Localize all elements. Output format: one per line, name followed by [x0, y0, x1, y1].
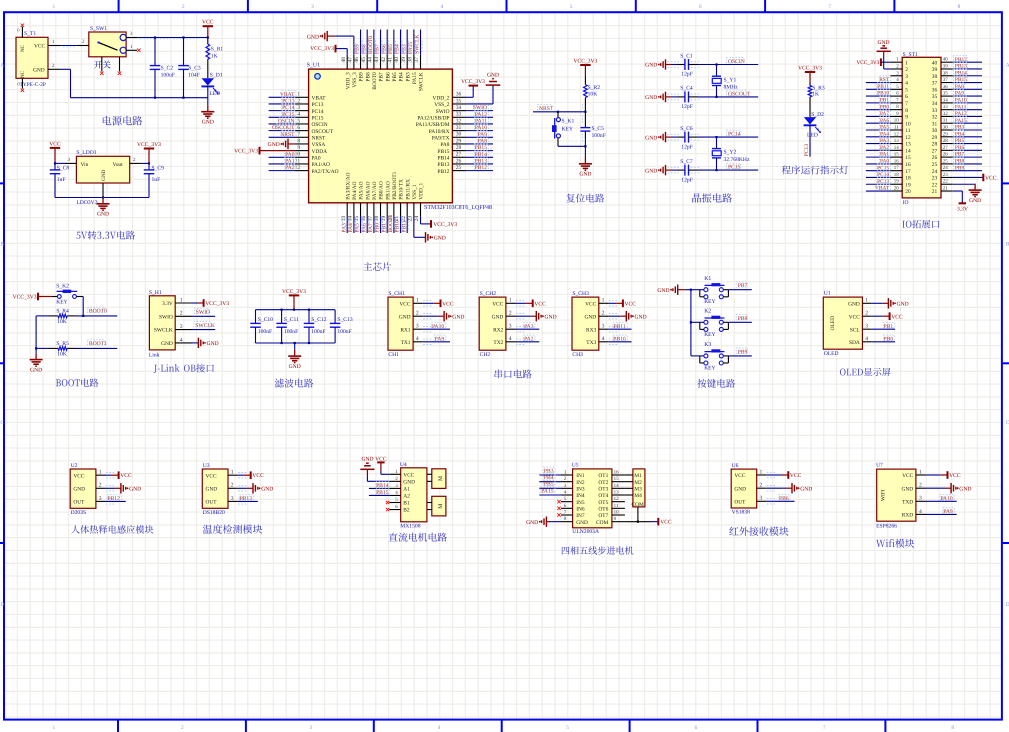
- ST1 pin 25: [932, 157, 982, 168]
- svg-text:1: 1: [760, 469, 763, 475]
- svg-text:21: 21: [943, 186, 949, 192]
- svg-text:U2: U2: [71, 463, 78, 469]
- svg-text:GND: GND: [261, 487, 273, 493]
- svg-text:28: 28: [456, 145, 462, 151]
- svg-text:GND: GND: [526, 520, 538, 526]
- svg-text:3: 3: [509, 324, 512, 330]
- wire net PB5: [539, 480, 561, 488]
- svg-text:7: 7: [828, 4, 831, 10]
- svg-text:PB5: PB5: [544, 482, 554, 488]
- svg-text:GND: GND: [897, 302, 909, 308]
- title 晶振电路: [692, 193, 732, 202]
- svg-text:16: 16: [894, 158, 900, 164]
- svg-text:33: 33: [932, 108, 938, 114]
- svg-text:VCC: VCC: [734, 473, 745, 479]
- svg-text:IN7: IN7: [576, 513, 585, 519]
- ST1 pin 19: [866, 178, 911, 189]
- svg-text:4: 4: [919, 509, 922, 515]
- svg-text:39: 39: [932, 67, 938, 73]
- svg-text:PB9: PB9: [355, 44, 361, 54]
- svg-text:PB1: PB1: [884, 324, 894, 330]
- svg-text:38: 38: [943, 70, 949, 76]
- svg-text:17: 17: [368, 216, 374, 222]
- U1 pin 22 PB11/RX (bottom): [401, 179, 412, 233]
- svg-text:U7: U7: [876, 463, 883, 469]
- svg-text:3: 3: [99, 496, 102, 502]
- svg-text:37: 37: [932, 81, 938, 87]
- svg-text:PB11/RX: PB11/RX: [405, 179, 411, 200]
- U1 pin 21 PB10/TX (bottom): [394, 179, 405, 233]
- svg-text:B1: B1: [403, 501, 410, 507]
- svg-text:1: 1: [53, 4, 56, 10]
- svg-text:45: 45: [361, 57, 367, 63]
- power VCC_3V3 at H1 pin1: [192, 299, 229, 307]
- wire net PA10: [423, 323, 450, 332]
- svg-text:S_R3: S_R3: [812, 85, 825, 91]
- ST1 pin 5: [866, 83, 908, 94]
- svg-text:13: 13: [614, 490, 620, 496]
- U1 pin 36 VDD_2: [432, 92, 465, 102]
- svg-text:A: A: [0, 63, 4, 69]
- svg-text:GND: GND: [434, 236, 446, 242]
- title 5V转3.3V电路: [76, 231, 135, 240]
- ST1 pin 34: [932, 96, 982, 107]
- svg-text:8: 8: [297, 138, 300, 144]
- capacitor S_C9 1uF: [144, 163, 164, 197]
- U1 pin 13 PA3/RX/AO (bottom): [341, 172, 352, 233]
- ST1 pin 39: [932, 62, 982, 73]
- svg-text:KEY: KEY: [704, 332, 715, 338]
- svg-text:PA5: PA5: [355, 223, 361, 233]
- svg-text:7: 7: [905, 101, 908, 107]
- svg-text:OLED: OLED: [830, 316, 836, 330]
- svg-text:S_C2: S_C2: [161, 65, 174, 71]
- svg-text:2: 2: [297, 98, 300, 104]
- svg-text:2: 2: [180, 311, 183, 317]
- serial port S_CH3: [572, 291, 608, 358]
- wire net PA10 (U7): [926, 495, 957, 502]
- svg-text:Vin: Vin: [81, 162, 89, 168]
- svg-text:GND: GND: [399, 314, 411, 320]
- ground GND at ST1 pin2: [877, 40, 891, 69]
- svg-text:41: 41: [388, 57, 394, 63]
- ground GND (U4): [360, 456, 389, 481]
- svg-text:GND: GND: [30, 367, 42, 373]
- no-connect marks U5 pins 5-7: [557, 500, 560, 503]
- svg-text:PA0: PA0: [880, 159, 889, 165]
- ground GND (reset): [579, 146, 592, 177]
- svg-text:31: 31: [943, 118, 949, 124]
- svg-text:20: 20: [894, 186, 900, 192]
- OLED pin 2 VCC: [849, 311, 872, 321]
- svg-text:35: 35: [932, 94, 938, 100]
- resistor S_R5 10K: [36, 340, 117, 358]
- U1 pin 14 PA4/AO (bottom): [348, 181, 359, 233]
- svg-text:VCC: VCC: [120, 473, 132, 479]
- svg-text:TX1: TX1: [401, 340, 411, 346]
- svg-text:VCC_3V3: VCC_3V3: [310, 46, 334, 52]
- svg-text:PB3: PB3: [544, 468, 554, 474]
- svg-text:PA3/RX/AO: PA3/RX/AO: [345, 172, 351, 199]
- svg-text:11: 11: [894, 125, 899, 131]
- svg-text:1: 1: [919, 469, 922, 475]
- svg-text:PA10: PA10: [432, 324, 444, 330]
- capacitor S_C11 100nF: [276, 309, 299, 345]
- svg-text:29: 29: [932, 135, 938, 141]
- sensor U6 VS1838: [731, 463, 766, 516]
- U1 pin 7 NRST: [269, 131, 326, 142]
- svg-text:31: 31: [932, 121, 938, 127]
- svg-text:S_SW1: S_SW1: [90, 26, 107, 32]
- svg-text:NRST: NRST: [312, 135, 326, 141]
- svg-text:IN4: IN4: [576, 493, 585, 499]
- svg-text:D203S: D203S: [71, 510, 87, 516]
- svg-text:44: 44: [368, 57, 374, 63]
- svg-text:3: 3: [311, 4, 314, 10]
- svg-text:7: 7: [297, 132, 300, 138]
- svg-text:ESP8266: ESP8266: [876, 524, 897, 530]
- ST1 pin 36: [932, 83, 982, 94]
- svg-text:1: 1: [905, 60, 908, 66]
- svg-text:PB6: PB6: [381, 44, 387, 54]
- push button K2: [691, 309, 752, 338]
- svg-text:18: 18: [905, 176, 911, 182]
- ground GND (U7): [926, 483, 971, 493]
- svg-text:PA7/AO: PA7/AO: [372, 181, 378, 199]
- ground GND: [238, 483, 274, 493]
- svg-text:VCC_3V3: VCC_3V3: [461, 79, 485, 85]
- svg-text:PB7: PB7: [738, 283, 748, 289]
- driver U5 ULN2003A: [561, 462, 625, 534]
- svg-text:1: 1: [53, 725, 56, 731]
- svg-text:OT7: OT7: [598, 513, 608, 519]
- U1 pin 29 PA8: [440, 137, 493, 148]
- svg-text:31: 31: [456, 125, 462, 131]
- svg-text:SWCLK: SWCLK: [419, 72, 425, 91]
- wire SWCLK: [192, 322, 215, 330]
- wire net PB0: [872, 335, 895, 342]
- capacitor S_C12 100nF: [304, 309, 327, 345]
- svg-text:1: 1: [297, 92, 300, 98]
- connector S_H1 J-Link: [149, 290, 175, 358]
- ST1 pin 2: [891, 63, 909, 73]
- svg-text:PC14: PC14: [312, 109, 324, 115]
- ground GND: [516, 311, 557, 321]
- svg-text:PA9: PA9: [478, 132, 488, 138]
- power VCC: [202, 20, 214, 38]
- svg-text:OT1: OT1: [598, 473, 608, 479]
- svg-text:12pF: 12pF: [681, 104, 693, 110]
- svg-text:104F: 104F: [188, 72, 200, 78]
- svg-text:WIFI: WIFI: [880, 489, 886, 501]
- power VCC at OLED pin2: [872, 312, 903, 320]
- power VCC: [766, 471, 801, 479]
- ST1 pin 6: [866, 89, 908, 100]
- svg-text:13: 13: [905, 142, 911, 148]
- wire filter top rail: [256, 309, 336, 311]
- svg-text:M3: M3: [634, 486, 642, 492]
- svg-text:VCC: VCC: [625, 301, 637, 307]
- svg-text:U3: U3: [203, 463, 210, 469]
- svg-text:PB10: PB10: [613, 336, 626, 342]
- U1 pin 42 PB6 (top): [381, 30, 392, 82]
- title 串口电路: [495, 370, 532, 379]
- ST1 pin 22: [932, 179, 953, 189]
- svg-text:D: D: [0, 602, 4, 608]
- svg-text:TX2: TX2: [493, 340, 503, 346]
- power VCC (U7): [926, 471, 961, 479]
- svg-text:GND: GND: [268, 142, 280, 148]
- svg-text:6: 6: [905, 94, 908, 100]
- serial port S_CH1: [388, 291, 423, 358]
- svg-text:35: 35: [943, 91, 949, 97]
- svg-text:PB14: PB14: [376, 483, 389, 489]
- svg-text:PB0: PB0: [880, 104, 890, 110]
- svg-text:16: 16: [361, 216, 367, 222]
- title 温度检测模块: [203, 524, 262, 533]
- wire net PA15: [539, 487, 561, 495]
- svg-text:S_C7: S_C7: [680, 159, 693, 165]
- svg-text:GND: GND: [800, 486, 812, 492]
- svg-text:BOOT0: BOOT0: [372, 72, 378, 90]
- svg-text:OUT: OUT: [73, 500, 85, 506]
- svg-text:14: 14: [905, 148, 911, 154]
- svg-text:PA7: PA7: [368, 223, 374, 233]
- svg-text:PA6: PA6: [361, 223, 367, 233]
- power VCC_3V3 (LDO out): [137, 142, 161, 164]
- svg-text:PB11: PB11: [613, 324, 625, 330]
- svg-text:VDD_3: VDD_3: [345, 72, 351, 89]
- svg-text:42: 42: [381, 57, 387, 63]
- svg-text:GND: GND: [101, 169, 107, 180]
- svg-text:GND: GND: [129, 487, 141, 493]
- svg-text:NRST: NRST: [280, 132, 295, 138]
- svg-text:2: 2: [181, 725, 184, 731]
- LED S_D2: [804, 112, 825, 138]
- svg-text:VSSA: VSSA: [312, 142, 326, 148]
- svg-text:GND: GND: [645, 63, 657, 69]
- svg-text:S_C12: S_C12: [311, 317, 326, 323]
- svg-text:TYPE-C-2P: TYPE-C-2P: [20, 82, 46, 88]
- sensor U2 D203S: [70, 463, 105, 516]
- resistor S_R2 10K: [584, 85, 601, 112]
- svg-text:22: 22: [943, 179, 949, 185]
- svg-text:VCC: VCC: [534, 301, 546, 307]
- svg-text:VBAT: VBAT: [312, 96, 327, 102]
- svg-text:IN5: IN5: [576, 500, 585, 506]
- svg-text:RX1: RX1: [400, 327, 410, 333]
- svg-text:12: 12: [614, 496, 620, 502]
- U1 pin 11 PA1/AO: [269, 157, 330, 168]
- U1 pin 32 PA11/USB/DM: [416, 117, 493, 128]
- svg-text:4: 4: [509, 336, 512, 342]
- svg-text:KEY: KEY: [56, 300, 67, 306]
- svg-text:1K: 1K: [812, 92, 819, 98]
- svg-text:PB4: PB4: [395, 44, 401, 54]
- svg-text:48: 48: [341, 57, 347, 63]
- U1 pin 48 VDD_3 (top): [341, 55, 352, 90]
- svg-text:PA8: PA8: [478, 139, 488, 145]
- svg-text:PA5: PA5: [880, 125, 889, 131]
- svg-text:29: 29: [456, 138, 462, 144]
- svg-text:VDD_2: VDD_2: [432, 96, 449, 102]
- svg-text:PA1/AO: PA1/AO: [312, 162, 330, 168]
- svg-text:VCC_3V3: VCC_3V3: [433, 222, 457, 228]
- ground GND: [423, 311, 465, 321]
- svg-text:PA15: PA15: [541, 488, 553, 494]
- wire net PB11: [608, 323, 631, 332]
- svg-text:PC15: PC15: [728, 165, 741, 171]
- svg-text:40: 40: [932, 60, 938, 66]
- svg-text:15: 15: [354, 216, 360, 222]
- svg-text:37: 37: [414, 57, 420, 63]
- svg-text:40: 40: [943, 57, 949, 63]
- svg-text:18: 18: [894, 172, 900, 178]
- svg-text:27: 27: [456, 152, 462, 158]
- title 四相五线步进电机: [562, 546, 634, 554]
- motor connector M (B): [427, 496, 446, 516]
- svg-text:4: 4: [180, 337, 183, 343]
- U1 pin 39 PB3 (top): [401, 30, 412, 82]
- capacitor S_C8 1uF: [50, 163, 70, 197]
- svg-text:GND: GND: [97, 212, 109, 218]
- svg-text:VCC: VCC: [849, 314, 860, 320]
- svg-text:PB0: PB0: [884, 336, 894, 342]
- svg-text:VCC: VCC: [442, 301, 454, 307]
- svg-text:26: 26: [932, 155, 938, 161]
- svg-text:3: 3: [297, 105, 300, 111]
- svg-text:PB5: PB5: [392, 72, 398, 82]
- svg-text:STM32F103C8T6_LQFP48: STM32F103C8T6_LQFP48: [424, 205, 492, 211]
- svg-text:PA3: PA3: [524, 324, 534, 330]
- U1 pin 9 VDDA: [296, 145, 328, 155]
- svg-text:S_LDO1: S_LDO1: [76, 150, 96, 156]
- svg-text:PA9/TX: PA9/TX: [432, 135, 450, 141]
- ground GND (filter): [288, 343, 301, 370]
- OLED pin 3 SCL: [850, 324, 872, 334]
- svg-text:GND: GND: [877, 40, 889, 46]
- svg-text:BOOT1: BOOT1: [388, 214, 394, 232]
- svg-text:3: 3: [180, 324, 183, 330]
- svg-text:TXD: TXD: [902, 499, 913, 505]
- svg-text:17: 17: [894, 165, 900, 171]
- svg-text:19: 19: [381, 216, 387, 222]
- title 红外接收模块: [729, 527, 788, 536]
- svg-text:M: M: [438, 504, 444, 509]
- svg-text:GND: GND: [487, 73, 499, 79]
- svg-text:RX3: RX3: [586, 327, 596, 333]
- svg-text:9: 9: [297, 145, 300, 151]
- svg-text:7: 7: [823, 725, 826, 731]
- ST1 pin 16: [866, 157, 911, 168]
- svg-text:26: 26: [943, 152, 949, 158]
- svg-text:CH1: CH1: [388, 352, 399, 358]
- svg-text:3: 3: [309, 725, 312, 731]
- U1 pin 2 PC13: [269, 97, 324, 108]
- ST1 pin 9: [866, 110, 908, 121]
- svg-text:19: 19: [905, 182, 911, 188]
- power VCC_3V3 into U1 VDDA pin9: [234, 147, 295, 155]
- svg-text:GND: GND: [161, 341, 173, 347]
- svg-text:M2: M2: [634, 480, 642, 486]
- svg-text:PB15: PB15: [376, 490, 389, 496]
- svg-text:SWIO: SWIO: [196, 310, 210, 316]
- svg-text:28: 28: [932, 142, 938, 148]
- svg-text:27: 27: [932, 148, 938, 154]
- U1 pin 41 PB5 (top): [388, 30, 399, 82]
- svg-text:PA9: PA9: [435, 336, 445, 342]
- svg-text:GND: GND: [645, 135, 657, 141]
- svg-text:1: 1: [416, 298, 419, 304]
- push button S_K1 KEY (reset): [552, 112, 585, 147]
- svg-text:PC13: PC13: [804, 144, 810, 157]
- ST1 pin 20: [866, 184, 911, 195]
- capacitor S_C10 100nF: [250, 310, 273, 343]
- H1 pin 4 GND: [161, 337, 192, 347]
- ST1 pin 21: [932, 186, 953, 196]
- U1 pin 4 PC15: [269, 111, 324, 122]
- wire net PB15: [369, 489, 390, 496]
- svg-text:1: 1: [99, 470, 102, 476]
- svg-text:4: 4: [865, 336, 868, 342]
- motor connector M1-M4: [625, 469, 645, 522]
- svg-text:PB1: PB1: [381, 223, 387, 233]
- svg-text:PC15: PC15: [312, 116, 324, 122]
- power VCC_3V3 (BOOT): [13, 293, 52, 301]
- svg-text:GND: GND: [545, 314, 557, 320]
- ST1 pin 31: [932, 117, 982, 128]
- svg-text:13: 13: [894, 138, 900, 144]
- svg-text:PB3: PB3: [405, 72, 411, 82]
- svg-text:24: 24: [943, 165, 949, 171]
- motor connector M (A): [427, 469, 446, 489]
- op-amp U1 main chip STM32F103C8T6 body: [307, 63, 492, 211]
- svg-text:GND: GND: [361, 456, 373, 462]
- svg-text:PB1: PB1: [880, 97, 890, 103]
- svg-text:VCC: VCC: [34, 44, 45, 50]
- svg-text:30: 30: [456, 132, 462, 138]
- svg-text:VCC_3V3: VCC_3V3: [573, 58, 597, 64]
- capacitor S_C7 12pF: [645, 159, 758, 183]
- svg-text:S_ST1: S_ST1: [903, 52, 918, 58]
- svg-text:15: 15: [614, 476, 620, 482]
- svg-text:KEY: KEY: [704, 365, 715, 371]
- ST1 pin 30: [932, 123, 982, 134]
- ground GND (LDO): [97, 198, 110, 218]
- svg-text:6: 6: [297, 125, 300, 131]
- title 程序运行指示灯: [782, 166, 849, 175]
- svg-text:VCC_3V3: VCC_3V3: [234, 149, 258, 155]
- svg-text:3: 3: [865, 324, 868, 330]
- svg-text:2: 2: [231, 483, 234, 489]
- svg-text:100nF: 100nF: [284, 329, 298, 335]
- svg-text:1: 1: [509, 298, 512, 304]
- svg-text:1: 1: [865, 298, 868, 304]
- svg-text:17: 17: [905, 169, 911, 175]
- svg-text:S_C4: S_C4: [680, 86, 693, 92]
- ST1 pin 28: [932, 137, 982, 148]
- svg-text:B: B: [0, 242, 4, 248]
- svg-text:VSS_2: VSS_2: [434, 102, 450, 108]
- svg-text:PA2/TX/AO: PA2/TX/AO: [312, 169, 339, 175]
- svg-text:VCC: VCC: [49, 141, 61, 147]
- svg-text:IN6: IN6: [576, 506, 585, 512]
- U1 pin 43 PB7 (top): [374, 30, 385, 82]
- title 人体热释电感应模块: [71, 525, 153, 534]
- wire net PA2: [516, 335, 540, 344]
- ground GND (BOOT): [30, 353, 43, 373]
- wire net PB13: [238, 495, 258, 504]
